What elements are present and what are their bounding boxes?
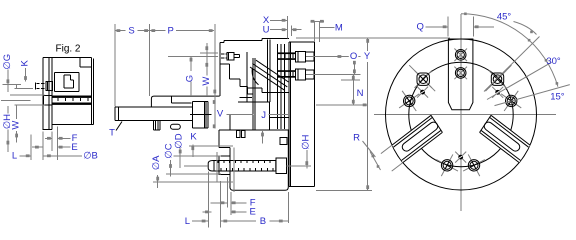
dimension K (middle view) — [189, 132, 233, 157]
cam screw upper-right — [486, 65, 512, 91]
mounting bolt 1 in front plate — [278, 51, 314, 62]
middle view stem block — [219, 130, 288, 191]
svg-text:45°: 45° — [497, 12, 512, 23]
bolt leaders to O/N dims — [306, 55, 361, 80]
dimension N — [352, 74, 364, 105]
extension line S left — [114, 24, 116, 107]
middle view threaded draw rod — [208, 161, 276, 172]
svg-text:15°: 15° — [550, 92, 565, 103]
svg-text:B: B — [260, 216, 266, 227]
center slot — [448, 39, 473, 110]
chuck vertical centerline — [460, 14, 462, 211]
svg-text:J: J — [261, 110, 266, 121]
leader T — [109, 122, 122, 139]
middle view keys at stem top — [237, 131, 245, 138]
dimension B-dia (left view) — [43, 151, 98, 162]
right jaw slot — [480, 115, 530, 162]
leader at stem top — [261, 131, 264, 144]
svg-text:T: T — [109, 127, 115, 138]
left view draw rod cross-section — [52, 96, 91, 105]
extension line bottom to Y — [316, 189, 372, 191]
slot screw upper — [454, 49, 467, 62]
pilot hole left — [417, 87, 428, 98]
middle view key block right — [280, 138, 287, 145]
cam screw right — [501, 91, 521, 111]
svg-text:∅A: ∅A — [151, 155, 162, 170]
dimension H-dia (middle view) — [287, 134, 312, 168]
dimension E (middle view) — [202, 207, 256, 218]
dimension E (left view) — [32, 142, 78, 153]
dimension G-dia (left view) — [2, 54, 13, 92]
mounting bolt 2 in front plate — [278, 69, 314, 80]
bolt circle arc — [409, 62, 513, 166]
dimension D-dia (middle view) — [173, 133, 221, 168]
svg-text:L: L — [185, 216, 190, 227]
label R and leader — [353, 132, 375, 157]
svg-text:∅D: ∅D — [173, 133, 184, 148]
chuck horizontal centerline — [374, 114, 556, 116]
middle view front plate — [289, 42, 315, 187]
svg-text:L: L — [12, 151, 17, 162]
slot screw lower — [454, 67, 467, 80]
left view set screw with hidden threads — [36, 82, 53, 91]
middle view body bottom edge — [219, 129, 289, 131]
label V and leader — [217, 108, 254, 119]
left view extension lines at set screw and rod — [1, 85, 45, 105]
pilot hole right — [492, 87, 503, 98]
extension line mid stem — [216, 152, 218, 182]
middle view draw bar — [115, 107, 192, 121]
svg-text:K: K — [190, 132, 197, 143]
svg-text:∅C: ∅C — [163, 143, 174, 158]
middle view rod head — [276, 158, 287, 174]
dimension G (middle view) — [168, 56, 218, 96]
radial line 30 deg — [487, 62, 552, 99]
middle view body lower-left profile — [151, 96, 219, 107]
dimension F (middle view) — [211, 198, 256, 209]
svg-text:V: V — [217, 108, 224, 119]
middle view body-plate interface lines — [278, 44, 285, 129]
dimension L (middle view) — [185, 216, 209, 227]
extension line S/P — [149, 24, 151, 96]
cam screw left — [399, 91, 419, 111]
dimension U — [263, 25, 302, 36]
dimension O — [349, 51, 359, 74]
dimension C-dia (middle view) — [163, 143, 221, 176]
left view rod head — [43, 96, 52, 105]
middle view clamp fingers under bar — [153, 121, 160, 131]
dimension H-dia (left view) — [2, 106, 13, 152]
angle dimension arc — [461, 13, 558, 87]
svg-text:Fig. 2: Fig. 2 — [55, 44, 80, 55]
chuck body circle — [386, 39, 537, 190]
middle view small slot under bar — [171, 124, 181, 129]
svg-text:M: M — [335, 23, 343, 34]
svg-text:Y: Y — [364, 51, 371, 62]
pilot hole bottom — [455, 152, 466, 163]
svg-text:K: K — [19, 59, 30, 66]
svg-text:S: S — [128, 25, 134, 36]
left jaw slot — [392, 115, 442, 162]
svg-text:W: W — [201, 77, 212, 86]
dimension A-dia (middle view) — [151, 155, 233, 188]
svg-text:E: E — [250, 207, 256, 218]
dimension W (middle view) — [200, 43, 218, 96]
svg-text:P: P — [168, 25, 174, 36]
label J and leader — [261, 110, 288, 121]
middle view collar on stem — [219, 156, 230, 174]
extension lines X/U — [287, 16, 291, 39]
extension line plate top to right view — [296, 37, 450, 39]
svg-text:W: W — [11, 121, 22, 130]
svg-text:G: G — [185, 75, 196, 82]
dimension B (middle view) — [221, 216, 289, 227]
svg-text:E: E — [71, 142, 77, 153]
dimension Y — [364, 38, 371, 191]
middle view bore staircase — [220, 64, 253, 94]
dimension F (left view) — [45, 133, 78, 144]
middle view set screw at body left — [221, 52, 240, 60]
svg-text:O: O — [350, 51, 357, 62]
dimension P — [150, 25, 215, 36]
svg-text:N: N — [357, 88, 364, 99]
dimension X — [263, 15, 287, 26]
left view main body outline — [43, 57, 93, 124]
middle view body top outline — [220, 39, 289, 97]
dimension K (left view) — [19, 59, 30, 81]
radial line 45 deg — [484, 37, 540, 92]
svg-text:∅G: ∅G — [2, 54, 13, 70]
extension line P right / dimension V line — [213, 24, 216, 129]
left view top-right notch — [80, 57, 91, 67]
svg-text:∅B: ∅B — [83, 151, 98, 162]
svg-text:R: R — [353, 132, 360, 143]
middle view piston block on bar — [193, 102, 209, 128]
dimension M — [311, 20, 343, 42]
dimension Q — [417, 17, 494, 37]
extension line at chuck axis upper — [316, 104, 368, 107]
radial line 15 deg — [495, 85, 570, 106]
middle view taper section lines — [238, 40, 289, 130]
svg-text:30°: 30° — [546, 56, 561, 67]
dimension S — [115, 25, 150, 36]
svg-text:Q: Q — [417, 22, 424, 33]
left view lower extension lines — [31, 126, 57, 160]
cam screw bottom-left — [436, 154, 458, 176]
slot width extension lines — [370, 145, 403, 171]
svg-text:U: U — [263, 25, 270, 36]
cam screw bottom-right — [463, 154, 485, 176]
rod axis extension — [184, 165, 208, 167]
svg-text:∅H: ∅H — [300, 134, 311, 149]
bottom extension lines (middle view) — [209, 148, 289, 228]
cam screw upper-left — [409, 65, 435, 91]
left view adapter plate — [43, 57, 53, 129]
dimension L (left view) — [12, 151, 31, 162]
left view center pocket — [54, 72, 79, 91]
dimension W (left view) — [11, 105, 22, 143]
middle view bore centerline stub — [190, 113, 212, 115]
